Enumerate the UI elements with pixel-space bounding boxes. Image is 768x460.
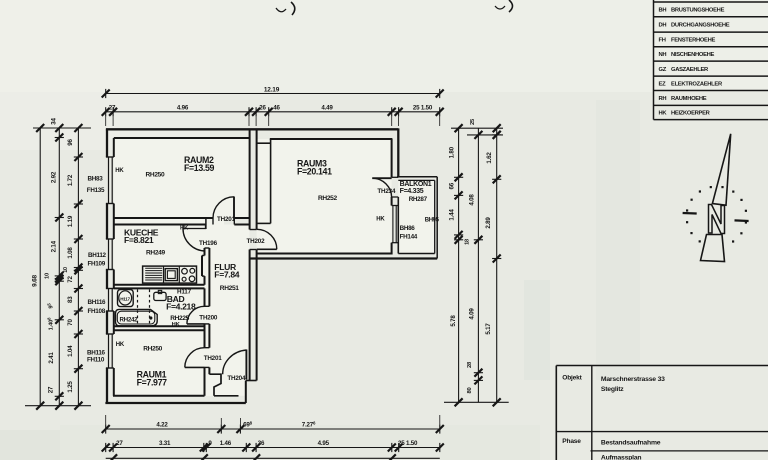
svg-text:DURCHGANGSHOEHE: DURCHGANGSHOEHE — [671, 23, 730, 29]
door TH201 (RAUM1) leaf — [185, 366, 205, 368]
shaft bottom line — [257, 222, 271, 224]
vestibule niche step — [209, 374, 221, 396]
svg-text:1.46: 1.46 — [220, 440, 232, 447]
svg-text:FH110: FH110 — [87, 357, 105, 364]
dimension chain left total 9.68 — [39, 128, 41, 406]
bathtub outer — [116, 309, 158, 325]
dimension top total 12.19 — [106, 93, 440, 95]
scan mark left (cup + paren) — [276, 8, 286, 12]
wall: vestibule outer right edge going up to stair wall — [245, 381, 247, 404]
door TH202 leaf — [257, 248, 277, 250]
wall W2 opening caps — [205, 247, 210, 249]
bottom row1 extension stubs — [220, 418, 222, 424]
balcony top parapet outer line — [397, 176, 437, 178]
svg-text:9.68: 9.68 — [32, 274, 39, 286]
svg-text:RAUMHOEHE: RAUMHOEHE — [671, 96, 707, 102]
wall: RAUM1 bottom exterior inner face — [113, 395, 205, 397]
svg-text:F=4.218: F=4.218 — [166, 302, 196, 312]
scan tone: faint ghosting band 2 — [524, 280, 550, 380]
wall: left exterior inner face segments — [113, 138, 115, 157]
door TH201 jamb caps — [212, 218, 214, 225]
svg-text:HK: HK — [172, 322, 181, 328]
balcony right parapet inner line — [434, 180, 436, 253]
right chain 25 tick spanning B C — [467, 134, 503, 136]
wall: top exterior inner face RAUM3 — [270, 138, 393, 140]
wall W5 right face — [256, 129, 258, 229]
door TH201 swing arc — [213, 197, 234, 218]
scan tone: faint ghosting band right of plan — [596, 100, 640, 380]
WC ellipse with H117 — [119, 291, 132, 305]
dimension chain right B — [477, 128, 479, 402]
svg-text:BH116: BH116 — [88, 299, 107, 306]
svg-text:BH86: BH86 — [400, 225, 416, 232]
svg-text:70: 70 — [67, 319, 74, 326]
wall: right section bottom inner face — [257, 253, 392, 255]
door TH201 leaf — [233, 197, 235, 219]
svg-text:GASZAEHLER: GASZAEHLER — [671, 67, 709, 73]
svg-text:28: 28 — [467, 361, 473, 368]
wall: vestibule threshold inner line — [214, 395, 239, 397]
svg-text:RH249: RH249 — [146, 250, 165, 257]
svg-text:66: 66 — [449, 182, 456, 189]
svg-text:GZ: GZ — [659, 67, 667, 73]
svg-text:46: 46 — [273, 104, 280, 111]
svg-text:4.22: 4.22 — [156, 422, 168, 429]
svg-text:Objekt: Objekt — [562, 375, 582, 382]
svg-text:FH135: FH135 — [87, 187, 105, 194]
svg-text:TH234: TH234 — [377, 188, 396, 195]
svg-text:BRUSTUNGSHOEHE: BRUSTUNGSHOEHE — [671, 8, 725, 14]
svg-text:2.89: 2.89 — [485, 217, 492, 229]
shaft right face — [270, 139, 272, 223]
wall: left exterior outer face segments — [106, 129, 108, 157]
scan tone: faint blob near bottom left — [0, 430, 60, 460]
scan mark right (cup + paren) — [495, 6, 505, 9]
door TH234 opening caps — [392, 176, 399, 178]
WC fixture outline — [118, 290, 134, 307]
svg-text:27: 27 — [116, 440, 123, 447]
wall W1 lower face — [114, 224, 206, 226]
north arrow west dash — [683, 212, 697, 215]
svg-text:34: 34 — [51, 118, 58, 125]
svg-text:F=20.141: F=20.141 — [297, 166, 332, 176]
svg-text:FH144: FH144 — [400, 233, 418, 240]
dimension chain left middle (34,2.92,2.14,...) — [58, 128, 60, 406]
svg-text:12.19: 12.19 — [264, 87, 280, 94]
svg-text:27: 27 — [48, 386, 55, 393]
svg-text:TH204: TH204 — [227, 375, 246, 382]
svg-text:2.41: 2.41 — [48, 352, 55, 364]
door TH234 leaf — [372, 177, 391, 179]
svg-text:2.14: 2.14 — [51, 240, 58, 252]
svg-text:1.80: 1.80 — [449, 146, 456, 158]
door TH204 leaf — [245, 350, 247, 380]
svg-text:BH95: BH95 — [425, 218, 440, 224]
svg-text:36: 36 — [258, 440, 265, 447]
wall W1: RAUM2 bottom / KUECHE top, upper face — [114, 217, 213, 219]
svg-text:Aufmassplan: Aufmassplan — [601, 455, 642, 460]
wall: balcony bottom inner line — [398, 253, 434, 255]
svg-text:TH202: TH202 — [247, 238, 266, 245]
dimension bottom row1 (4.22, 69, 7.27) — [106, 428, 440, 430]
svg-text:27: 27 — [109, 104, 116, 111]
svg-text:HK: HK — [376, 216, 385, 222]
door TH201 (RAUM1) swing arc — [185, 348, 205, 368]
wall: FLUR right wall bottom end cap — [246, 380, 257, 382]
dimension bottom row2 — [106, 447, 440, 449]
wall W4 lower face — [114, 329, 205, 331]
svg-text:10: 10 — [63, 267, 69, 273]
svg-text:5.17: 5.17 — [485, 323, 492, 335]
svg-text:25 1.50: 25 1.50 — [398, 440, 418, 447]
title block frame — [556, 365, 768, 367]
svg-text:BH83: BH83 — [88, 176, 104, 183]
svg-text:TH201: TH201 — [217, 216, 236, 223]
svg-text:25: 25 — [470, 118, 476, 125]
svg-text:BH112: BH112 — [88, 252, 107, 259]
kitchen sink — [165, 269, 177, 281]
north arrow tail trapezoid — [701, 235, 725, 262]
svg-text:83: 83 — [67, 296, 74, 303]
svg-text:RH225: RH225 — [170, 315, 189, 322]
door TH234 swing arc — [372, 178, 391, 197]
svg-text:1.19: 1.19 — [67, 215, 74, 227]
wall W2: FLUR side face — [208, 248, 210, 306]
svg-text:F=7.84: F=7.84 — [214, 269, 239, 279]
svg-text:FH109: FH109 — [88, 261, 106, 268]
svg-text:2.92: 2.92 — [51, 171, 58, 183]
dimension bottom row3 partial — [106, 457, 440, 459]
door TH196 top jamb stub — [205, 218, 207, 229]
svg-text:H117: H117 — [120, 296, 130, 301]
north arrow dotted circle — [745, 221, 747, 223]
svg-text:72: 72 — [67, 276, 74, 283]
wall W5: RAUM2|RAUM3 / FLUR right, left face — [249, 129, 251, 229]
svg-text:ELEKTROZAEHLER: ELEKTROZAEHLER — [671, 82, 723, 88]
svg-text:HK: HK — [659, 111, 668, 117]
wall: RAUM3 right exterior outer face (balcony side) — [397, 128, 399, 177]
svg-text:HEIZKOERPER: HEIZKOERPER — [671, 111, 711, 117]
svg-text:25 1.50: 25 1.50 — [413, 104, 433, 111]
north arrow letter N outline — [709, 205, 725, 234]
left chains top tick row — [33, 127, 91, 129]
door TH202 swing arc — [257, 229, 277, 249]
svg-text:RH250: RH250 — [146, 172, 165, 179]
bathtub drain — [149, 316, 152, 319]
svg-text:RH: RH — [659, 96, 667, 102]
wall W4: BAD/RAUM1 upper face — [114, 325, 205, 327]
svg-text:4.09: 4.09 — [469, 308, 476, 320]
wall: right section bottom outer face — [250, 257, 438, 259]
wall W2: FLUR left wall, KUECHE/BAD/RAUM1 side face — [204, 248, 206, 256]
svg-text:NISCHENHOEHE: NISCHENHOEHE — [671, 52, 715, 58]
right chains top tick row — [451, 127, 503, 129]
svg-text:BH: BH — [659, 8, 667, 14]
kitchen unit outline — [143, 266, 197, 283]
svg-text:1.72: 1.72 — [67, 174, 74, 186]
svg-text:5.78: 5.78 — [450, 315, 457, 327]
svg-text:HK: HK — [115, 168, 124, 174]
shower dashed line 2 — [149, 290, 151, 325]
wall W3: KUECHE/BAD upper face — [114, 284, 205, 286]
window BAD (BH116 FH108) — [106, 288, 114, 290]
legend table frame — [653, 0, 655, 120]
svg-text:4.08: 4.08 — [469, 194, 476, 206]
washbasin — [154, 292, 166, 300]
door TH196 leaf (bar) — [183, 224, 206, 228]
svg-text:RH242: RH242 — [120, 316, 139, 323]
svg-text:4.96: 4.96 — [177, 104, 189, 111]
shower dashed line 1 — [137, 290, 139, 325]
wall: top exterior outer face — [106, 128, 398, 130]
svg-text:FH: FH — [659, 38, 666, 44]
dimension top chain row2 — [106, 111, 440, 113]
shaft in RAUM3 top-left: top line — [257, 142, 271, 144]
north arrow needle — [712, 134, 730, 205]
kitchen divider lines — [163, 266, 165, 283]
svg-text:26: 26 — [259, 104, 266, 111]
kitchen drainer hatch — [145, 267, 162, 269]
svg-text:FH108: FH108 — [88, 308, 106, 315]
scan tone: faint band lower area — [60, 425, 540, 460]
svg-text:F=7.977: F=7.977 — [137, 377, 168, 387]
svg-text:3.31: 3.31 — [159, 440, 171, 447]
svg-text:BH116: BH116 — [87, 349, 106, 356]
dimension chain right C — [496, 128, 498, 402]
window RAUM3 right (BH86 FH144) — [392, 205, 399, 207]
svg-text:80: 80 — [467, 387, 473, 393]
svg-text:96: 96 — [67, 139, 74, 146]
wall W3 lower face — [114, 287, 205, 289]
right chains bottom tick row — [444, 401, 509, 403]
wall: top exterior inner face RAUM2 — [114, 137, 251, 139]
svg-text:1.04: 1.04 — [67, 345, 74, 357]
svg-text:4.95: 4.95 — [318, 440, 330, 447]
svg-text:DH: DH — [659, 23, 667, 29]
svg-text:1.62: 1.62 — [486, 152, 493, 164]
window KUECHE (BH112 FH109) — [106, 238, 114, 240]
svg-text:HK: HK — [180, 225, 189, 231]
svg-text:10: 10 — [45, 273, 51, 279]
stove burners — [182, 268, 188, 274]
window RAUM2 (BH83 FH135) — [106, 156, 114, 158]
room interiors fill — [114, 138, 250, 396]
svg-text:1.25: 1.25 — [67, 381, 74, 393]
scan tone: lighter top-left corner — [0, 0, 210, 150]
wall: RAUM3 right exterior inner face — [391, 139, 393, 177]
scan tone: lighter top band — [0, 0, 768, 92]
svg-text:RH287: RH287 — [409, 196, 428, 203]
svg-text:FENSTERHOEHE: FENSTERHOEHE — [671, 38, 716, 44]
svg-text:F=13.59: F=13.59 — [184, 163, 215, 173]
wall: RAUM1 bottom exterior outer face — [105, 402, 245, 404]
window RAUM1 (BH116 FH110) — [106, 333, 114, 335]
svg-text:Phase: Phase — [562, 438, 581, 445]
left chains bottom tick row — [25, 405, 91, 407]
svg-text:F=8.821: F=8.821 — [124, 235, 154, 245]
svg-text:4.49: 4.49 — [321, 104, 333, 111]
door TH196 swing arc — [183, 229, 206, 252]
door TH200 swing arc — [187, 306, 205, 324]
svg-text:18: 18 — [465, 239, 471, 245]
svg-text:F=4.335: F=4.335 — [400, 188, 424, 195]
svg-text:BALKON1: BALKON1 — [400, 181, 432, 188]
svg-text:RH252: RH252 — [318, 195, 337, 202]
north arrow east dash — [735, 219, 749, 222]
dimension chain right A — [458, 128, 460, 402]
door TH204 swing arc — [223, 350, 247, 374]
svg-text:NH: NH — [659, 52, 667, 58]
svg-text:TH196: TH196 — [199, 240, 218, 247]
svg-text:TH200: TH200 — [199, 314, 218, 321]
top chain extension stubs — [105, 116, 107, 126]
svg-text:RH251: RH251 — [220, 285, 239, 292]
dimension chain left inner (96,1.72,...) — [77, 128, 79, 406]
svg-text:1.44: 1.44 — [449, 209, 456, 221]
svg-text:RH250: RH250 — [143, 346, 162, 353]
svg-text:Bestandsaufnahme: Bestandsaufnahme — [601, 440, 661, 447]
balcony top parapet inner line — [398, 179, 434, 181]
door TH202 opening caps — [250, 229, 257, 231]
svg-text:Steglitz: Steglitz — [601, 386, 624, 393]
bathtub inner — [117, 311, 155, 324]
svg-text:EZ: EZ — [659, 82, 667, 88]
balcony right parapet outer line — [436, 177, 438, 259]
door TH200 leaf — [187, 323, 205, 325]
svg-text:1.08: 1.08 — [67, 247, 74, 259]
svg-text:HK: HK — [116, 342, 125, 348]
svg-text:TH201: TH201 — [204, 355, 223, 362]
svg-text:Marschnerstrasse 33: Marschnerstrasse 33 — [601, 376, 665, 383]
